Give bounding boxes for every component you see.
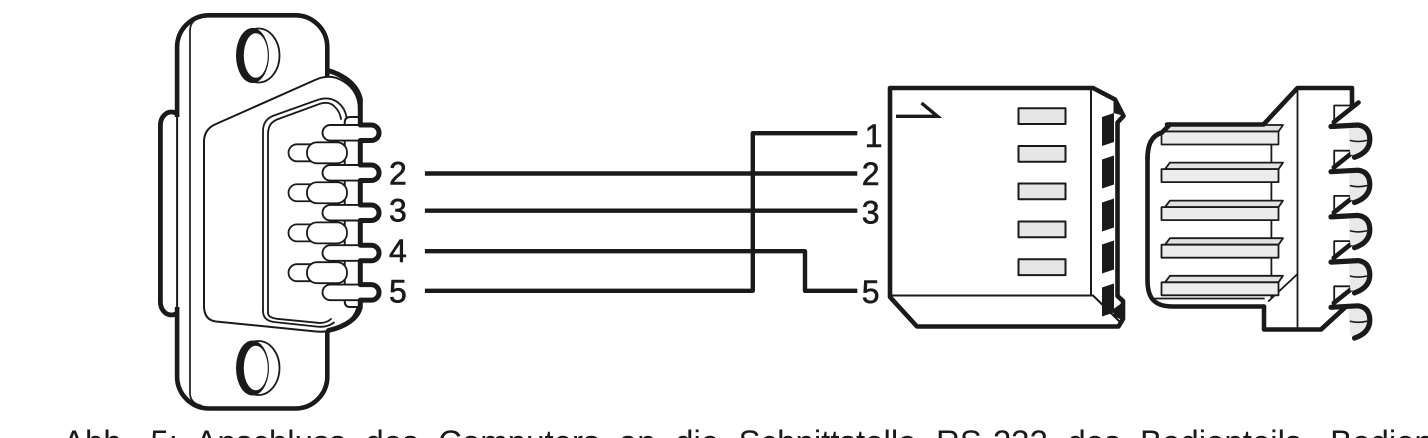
connector J1 hood bevel bottom xyxy=(263,311,334,327)
connector J2 bottom bevel edge xyxy=(1093,296,1119,322)
tooth 5 diagonal edge xyxy=(1334,283,1359,303)
connector J3 body front right edge xyxy=(1270,128,1272,298)
connector J1 front rim outline with pins xyxy=(328,71,379,331)
connector J2 front face bottom edge xyxy=(890,295,1093,297)
connector J2 housing body xyxy=(890,88,1124,327)
connector J3 board top diagonal xyxy=(1264,88,1353,125)
blade 4 xyxy=(1162,238,1284,258)
connector J3 silhouette top edge over blade1 xyxy=(1167,122,1264,127)
connector J2 side slot 3 xyxy=(1102,199,1114,232)
connector J1 flange inner 3D edge xyxy=(190,17,202,405)
tooth 1 diagonal edge xyxy=(1334,103,1359,123)
tooth 2 body xyxy=(1331,170,1370,202)
connector J1 insert plate xyxy=(345,117,361,307)
blade 3 xyxy=(1162,201,1284,221)
pin 8 rear row xyxy=(289,222,348,243)
tooth 4 diagonal edge xyxy=(1334,238,1359,258)
connector J2 top step shadow xyxy=(1114,99,1123,116)
mounting hole top rear ellipse xyxy=(238,29,280,83)
svg-text:3: 3 xyxy=(389,192,407,228)
tooth 1 body xyxy=(1331,125,1370,157)
wire pin3 to pin3 xyxy=(425,208,857,212)
connector J2 bottom step shadow xyxy=(1114,303,1123,321)
connector J2 side slot 2 xyxy=(1102,156,1114,189)
tooth 5 body xyxy=(1331,306,1370,338)
pin 9 rear row xyxy=(289,262,348,283)
connector J2 latch slot 4 xyxy=(1019,222,1066,238)
tooth 3 diagonal edge xyxy=(1334,193,1359,213)
connector J3 plug body xyxy=(1148,125,1264,307)
connector J1 DB9 rear shell bump xyxy=(160,112,182,315)
connector J2 side slot 1 xyxy=(1102,113,1114,146)
wire pin4 to pin5 with jog xyxy=(425,251,857,291)
pin 3 shaft xyxy=(323,205,375,221)
pin 6 rear row xyxy=(289,142,348,163)
svg-text:Abb. 5: Anschluss des Computer: Abb. 5: Anschluss des Computers an die S… xyxy=(63,423,1428,438)
connector J3 board left edge xyxy=(1297,90,1299,330)
svg-text:4: 4 xyxy=(389,233,407,269)
tooth 2 notch xyxy=(1334,151,1352,167)
tooth 2 diagonal edge xyxy=(1334,148,1359,168)
svg-text:1: 1 xyxy=(865,118,883,154)
tooth 4 notch xyxy=(1334,241,1352,257)
svg-text:5: 5 xyxy=(862,274,880,310)
connector J2 side slot 4 xyxy=(1102,241,1114,274)
connector J2 front face right edge xyxy=(1090,89,1092,296)
connector J1 DB9 flange xyxy=(177,15,327,408)
blade 5 xyxy=(1162,276,1284,296)
tooth 1 notch xyxy=(1334,106,1352,122)
flange left edge thin segment behind rear bump xyxy=(173,117,182,307)
connector J2 latch slot 3 xyxy=(1019,184,1066,200)
wire pin5 to pin1 with jog xyxy=(425,133,857,291)
connector J3 silhouette top left curve xyxy=(1148,125,1171,160)
tooth 3 body xyxy=(1331,215,1370,247)
connector J3 board bottom outline xyxy=(1264,307,1345,330)
tooth 5 notch xyxy=(1334,286,1352,302)
svg-text:5: 5 xyxy=(389,274,407,310)
blade 1 xyxy=(1162,125,1284,145)
connector J2 latch slot 1 xyxy=(1019,108,1066,124)
mounting hole top ring xyxy=(236,28,269,83)
connector J3 board fill xyxy=(1264,87,1354,332)
connector J2 latch slot 2 xyxy=(1019,146,1066,162)
mounting hole bottom ring xyxy=(236,341,269,396)
connector J1 hood xyxy=(204,77,359,332)
connector J2 side slot 5 xyxy=(1102,284,1114,317)
wire pin2 to pin2 xyxy=(425,171,857,175)
connector J2 pin1 arrow marker xyxy=(896,103,938,116)
connector J3 body bottom edge xyxy=(1155,298,1264,300)
pin 7 rear row xyxy=(289,182,348,203)
pin 4 shaft xyxy=(323,245,375,261)
connector J3 board bottom bevel xyxy=(1269,275,1297,302)
svg-text:3: 3 xyxy=(862,194,880,230)
mounting hole bottom rear ellipse xyxy=(238,341,280,395)
svg-text:2: 2 xyxy=(389,156,407,192)
connector J2 latch slot 5 xyxy=(1019,259,1066,275)
tooth 4 body xyxy=(1331,261,1370,293)
blade 2 xyxy=(1162,163,1284,183)
connector J1 hood bevel line inner xyxy=(268,103,341,313)
tooth 3 notch xyxy=(1334,196,1352,212)
pin 2 shaft xyxy=(323,165,375,181)
connector J1 hood bevel line outer xyxy=(263,98,347,311)
svg-text:2: 2 xyxy=(862,156,880,192)
pin 5 shaft xyxy=(323,285,375,301)
pin 1 shaft xyxy=(323,125,375,141)
pin tip clean fills xyxy=(361,124,380,301)
